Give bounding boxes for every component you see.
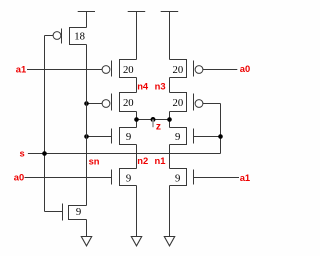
vdd rail T2 (128, 12, 146, 60)
wire gnd lead left (86, 220, 88, 237)
wire n2 vertical (136, 145, 138, 169)
transistor M1 pmos 18 (45, 28, 87, 45)
wire a1 right (194, 177, 240, 179)
wire s horizontal (28, 153, 221, 155)
wire sn vertical (86, 45, 88, 206)
wire gnd lead right (169, 186, 171, 237)
wire s gate tap row3 right (194, 136, 221, 138)
svg-text:9: 9 (126, 172, 131, 184)
wire s branch right vertical (220, 104, 222, 154)
junction dot s branch (218, 134, 223, 139)
svg-text:n3: n3 (155, 81, 166, 92)
svg-text:sn: sn (89, 155, 100, 166)
svg-text:20: 20 (173, 64, 184, 76)
vdd rail T3 (161, 12, 179, 60)
junction dot z left (134, 117, 139, 122)
svg-text:9: 9 (126, 131, 131, 143)
junction dot s (42, 151, 47, 156)
svg-text:n2: n2 (137, 155, 148, 166)
wire z right vertical (169, 112, 171, 128)
ground symbol left (81, 237, 91, 246)
wire n3 vertical (169, 78, 171, 93)
wire s branch right horizontal (203, 103, 221, 105)
svg-text:9: 9 (76, 206, 81, 218)
svg-text:a0: a0 (240, 63, 250, 74)
wire s vertical (44, 36, 46, 212)
svg-text:20: 20 (173, 97, 184, 109)
svg-text:s: s (20, 147, 25, 158)
transistor M9 nmos 9 right row4 (170, 169, 194, 186)
transistor M3 pmos 20 right row1 (170, 60, 203, 78)
ground symbol mid (131, 237, 141, 246)
svg-text:a1: a1 (240, 172, 250, 183)
wire z horizontal (137, 119, 170, 121)
transistor M2 pmos 20 left row1 (102, 60, 136, 78)
transistor M7 nmos 9 right row3 (170, 128, 194, 145)
svg-text:9: 9 (175, 131, 180, 143)
wire n4 vertical (136, 78, 138, 93)
transistor M6 nmos 9 left row3 (112, 128, 137, 145)
z output stub (152, 120, 154, 128)
svg-text:18: 18 (74, 30, 85, 42)
svg-text:a1: a1 (16, 63, 26, 74)
wire sn gate tap row2 (87, 103, 103, 105)
svg-text:20: 20 (123, 64, 134, 76)
wire n1 vertical (169, 145, 171, 169)
ground symbol right (164, 237, 174, 246)
wire a0 right (203, 69, 237, 71)
wire a1 left (27, 69, 102, 71)
svg-text:z: z (156, 122, 161, 133)
transistor M8 nmos 9 left row4 (112, 169, 137, 186)
transistor M5 pmos 20 right row2 (170, 93, 203, 112)
wire gnd lead mid (136, 186, 138, 237)
wire z left vertical (136, 112, 138, 128)
transistor M10 nmos 9 bottom (63, 204, 87, 221)
svg-text:n1: n1 (155, 155, 166, 166)
junction dot z right (167, 117, 172, 122)
wire b9 gate (45, 211, 63, 213)
svg-text:a0: a0 (14, 171, 24, 182)
vdd rail T1 (78, 12, 95, 28)
junction dot z center (151, 117, 156, 122)
transistor M4 pmos 20 left row2 (102, 93, 136, 112)
svg-text:n4: n4 (137, 81, 149, 92)
junction dot sn row2 (84, 101, 89, 106)
wire sn gate tap row3 (87, 136, 112, 138)
svg-text:20: 20 (123, 97, 134, 109)
wire a0 left (25, 177, 112, 179)
svg-text:9: 9 (175, 172, 180, 184)
junction dot sn row3 (84, 134, 89, 139)
